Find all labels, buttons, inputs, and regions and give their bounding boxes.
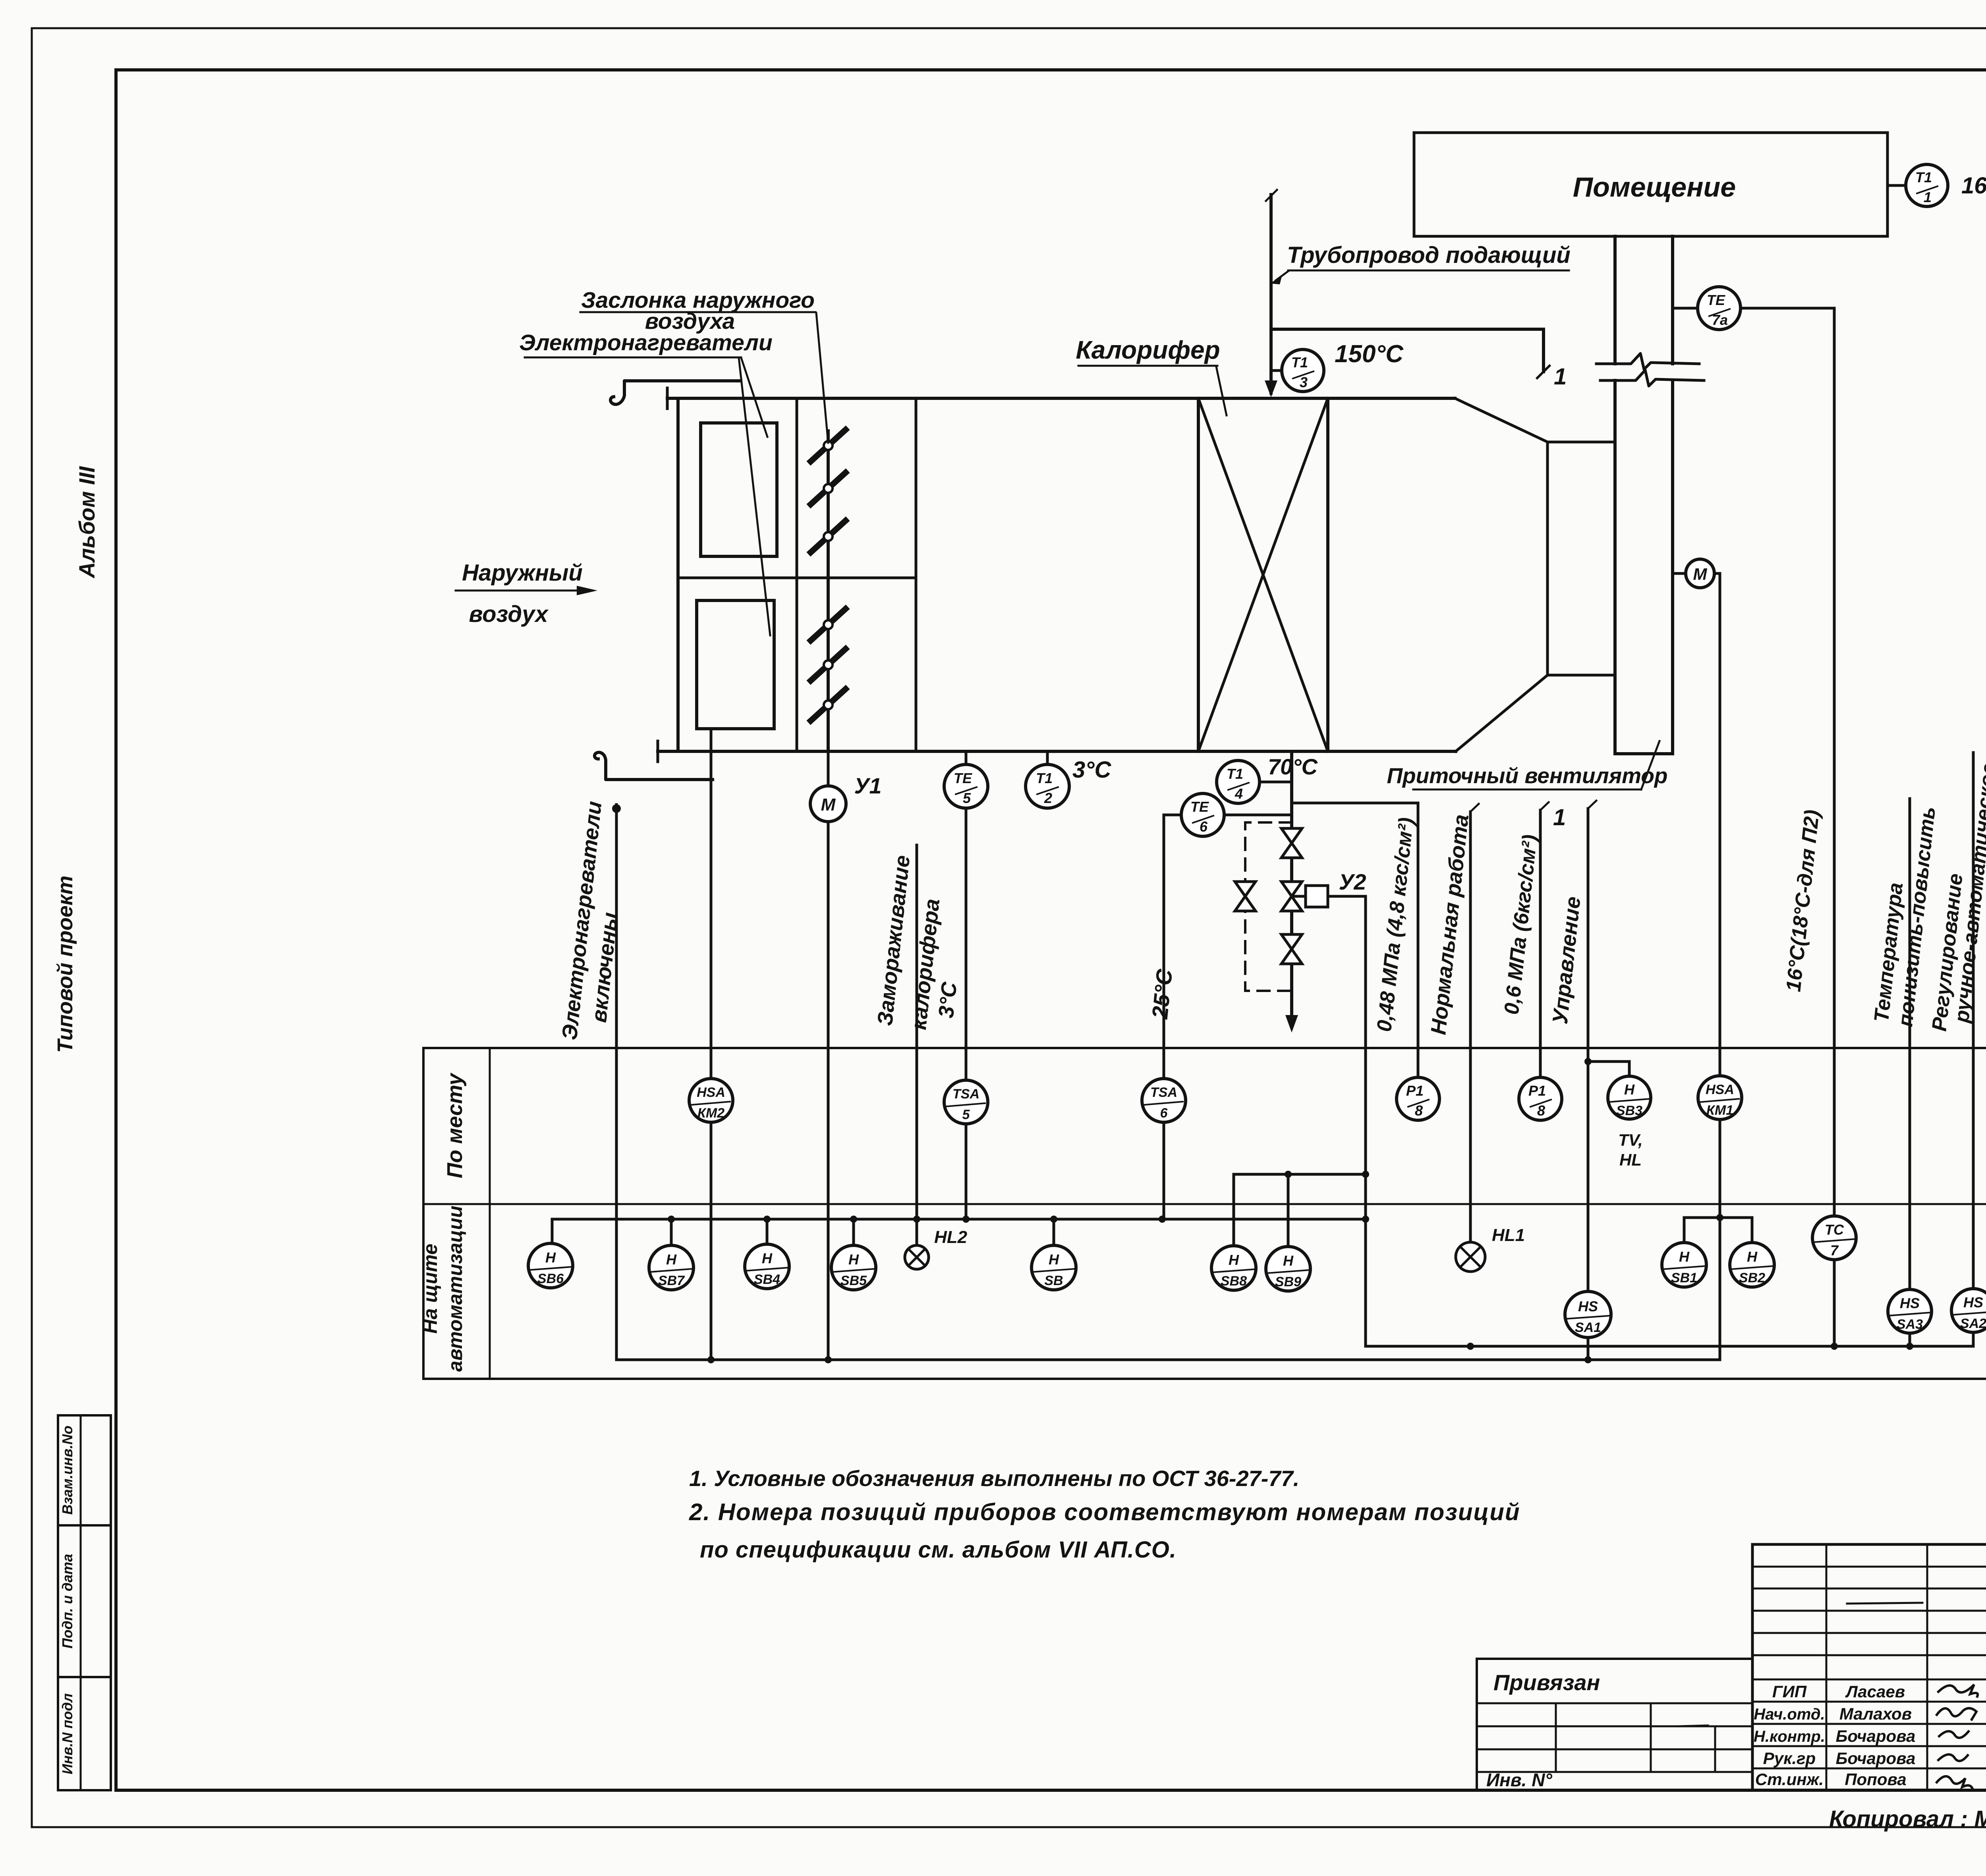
damper blade 1	[811, 430, 846, 461]
svg-text:НL1: НL1	[1492, 1226, 1525, 1245]
button H/SB4	[745, 1244, 789, 1289]
panel row divider	[423, 1203, 1986, 1205]
svg-text:Н: Н	[1747, 1249, 1758, 1265]
button H/SB7	[649, 1245, 694, 1290]
junction TSA/5 bus	[962, 1216, 970, 1223]
svg-text:1. Условные обозначения выполн: 1. Условные обозначения выполнены по ОСТ…	[689, 1466, 1299, 1491]
svg-text:3°С: 3°С	[934, 980, 962, 1019]
drop to SB5	[852, 1219, 855, 1245]
instrument HSA/KM2	[689, 1079, 733, 1122]
svg-text:Копировал : Мосч -: Копировал : Мосч -	[1829, 1806, 1986, 1832]
lamp HL2	[905, 1245, 929, 1269]
bracket SB8 SB9 to У2 wire	[1234, 1174, 1366, 1246]
wire KM1 column to bus B	[1719, 1218, 1721, 1360]
button H/SB2	[1730, 1243, 1774, 1287]
instrument TSA/5	[944, 1080, 988, 1124]
svg-text:SВ9: SВ9	[1275, 1274, 1301, 1289]
wire TSA/5 down to bus	[965, 1124, 968, 1219]
button H/SB6	[528, 1243, 573, 1288]
svg-text:Ласаев: Ласаев	[1845, 1682, 1905, 1701]
svg-text:3°С: 3°С	[1072, 757, 1111, 783]
button H/SB5	[831, 1245, 876, 1290]
svg-text:25°С: 25°С	[1147, 967, 1177, 1021]
svg-text:Альбом III: Альбом III	[74, 466, 99, 579]
instrument T1/4	[1217, 760, 1260, 803]
wire TE/6 left to TSA/6 column	[1164, 814, 1181, 816]
svg-text:Помещение: Помещение	[1573, 172, 1736, 203]
svg-text:Рук.гр: Рук.гр	[1763, 1749, 1816, 1768]
svg-text:SВ1: SВ1	[1671, 1270, 1697, 1285]
damper blade 4	[811, 609, 846, 641]
svg-text:6: 6	[1160, 1106, 1168, 1121]
junction TSA/6 bus	[1159, 1216, 1166, 1223]
instrument T1/2	[1046, 751, 1049, 765]
signatures	[1938, 1685, 1978, 1697]
svg-text:Н: Н	[848, 1251, 859, 1268]
unit partition 1	[796, 398, 798, 751]
svg-text:ТЕ: ТЕ	[1707, 292, 1725, 308]
svg-text:У1: У1	[854, 773, 881, 798]
svg-text:Р1: Р1	[1528, 1083, 1546, 1099]
svg-text:НSА: НSА	[697, 1085, 725, 1100]
svg-text:воздух: воздух	[469, 601, 549, 627]
wire regulation label to HS/SA2	[1972, 753, 1975, 1289]
svg-text:Р1: Р1	[1406, 1083, 1424, 1099]
panel strip box	[423, 1048, 1986, 1379]
svg-text:ТSА: ТSА	[1150, 1085, 1177, 1100]
unit bottom wall	[658, 750, 1456, 753]
bypass valve	[1235, 882, 1256, 896]
wire pipe to P1/8 no.1	[1292, 803, 1418, 1077]
svg-text:Н: Н	[1679, 1249, 1690, 1265]
svg-text:7: 7	[1830, 1242, 1839, 1258]
fan motor M	[1673, 572, 1686, 575]
svg-text:Привязан: Привязан	[1493, 1670, 1600, 1695]
damper axis	[827, 431, 830, 751]
svg-text:SВ7: SВ7	[658, 1273, 685, 1288]
leader to heater E2	[739, 358, 770, 635]
svg-text:Т1: Т1	[1227, 766, 1243, 782]
svg-text:70°С: 70°С	[1268, 754, 1318, 779]
svg-text:Н: Н	[1229, 1252, 1239, 1268]
svg-text:Бочарова: Бочарова	[1836, 1749, 1916, 1768]
wire temperature label to HS/SA3	[1909, 799, 1911, 1289]
svg-text:М: М	[1693, 565, 1708, 583]
svg-text:3: 3	[1300, 374, 1308, 390]
svg-text:Т1: Т1	[1036, 770, 1053, 786]
svg-text:Нач.отд.: Нач.отд.	[1754, 1706, 1825, 1723]
drop to SB4	[766, 1219, 769, 1244]
svg-text:5: 5	[962, 1107, 970, 1122]
svg-text:2. Номера позиций приборов соо: 2. Номера позиций приборов соответствуют…	[689, 1499, 1520, 1525]
wire TE/6 right to pipe	[1224, 814, 1292, 816]
unit partition 2	[915, 398, 918, 751]
binding box Привязан	[1477, 1659, 1752, 1790]
duct left wall	[1613, 236, 1617, 364]
svg-text:Бочарова: Бочарова	[1836, 1727, 1916, 1745]
svg-text:Типовой проект: Типовой проект	[53, 876, 77, 1053]
damper blade 5	[811, 649, 846, 681]
fan inlet cone bottom	[1456, 675, 1547, 751]
svg-text:5: 5	[963, 790, 971, 806]
instrument P1/8 no.2	[1519, 1077, 1562, 1120]
wire Управление column	[1587, 809, 1590, 1291]
valve V3	[1281, 934, 1302, 949]
svg-text:ТС: ТС	[1825, 1222, 1844, 1238]
instrument TE/6	[1181, 793, 1224, 836]
svg-text:ТSА: ТSА	[952, 1087, 979, 1102]
pipe branch to node 1	[1271, 329, 1544, 372]
instrument H/SB3	[1608, 1076, 1651, 1119]
valve V1	[1281, 828, 1302, 843]
heater coil box left	[1197, 398, 1200, 751]
svg-text:Н: Н	[762, 1250, 773, 1266]
svg-text:SА3: SА3	[1897, 1317, 1923, 1332]
drop to SB7	[670, 1219, 673, 1245]
wire freeze-protect label to HL2	[916, 845, 918, 1245]
unit bottom wall end tick	[657, 741, 659, 762]
svg-text:Н: Н	[1283, 1253, 1294, 1269]
svg-text:6: 6	[1200, 818, 1208, 835]
svg-text:150°С: 150°С	[1335, 340, 1404, 368]
svg-text:НSА: НSА	[1706, 1082, 1734, 1097]
fan throat	[1546, 442, 1549, 675]
svg-text:8: 8	[1537, 1102, 1545, 1119]
svg-text:Н: Н	[1049, 1251, 1059, 1268]
svg-text:4: 4	[1234, 786, 1243, 802]
svg-text:Попова: Попова	[1845, 1770, 1906, 1789]
fan inlet cone top	[1455, 398, 1547, 442]
junction У2 bus	[1362, 1216, 1369, 1223]
svg-text:На щите: На щите	[419, 1244, 441, 1334]
wire 0,6МПа to P1/8 no.2	[1539, 810, 1542, 1077]
svg-text:КМ2: КМ2	[697, 1106, 724, 1121]
electric heater E1	[701, 423, 777, 556]
svg-text:SВ5: SВ5	[840, 1273, 867, 1288]
svg-text:Инв. N°: Инв. N°	[1486, 1770, 1552, 1790]
svg-text:Калорифер: Калорифер	[1076, 336, 1220, 364]
svg-text:Ст.инж.: Ст.инж.	[1755, 1770, 1824, 1789]
svg-text:Малахов: Малахов	[1839, 1704, 1912, 1723]
instrument T1/1	[1887, 184, 1906, 187]
node 1 tick	[1537, 366, 1549, 378]
svg-text:автоматизации: автоматизации	[444, 1206, 466, 1372]
svg-text:SВ3: SВ3	[1616, 1103, 1642, 1118]
svg-text:Н: Н	[666, 1251, 677, 1268]
heater coil diagonal 1	[1198, 398, 1328, 751]
fan outlet top	[1547, 441, 1615, 444]
unit left wall	[676, 398, 680, 751]
supply pipe arrow	[1265, 380, 1277, 397]
bypass dashed pipe	[1245, 822, 1292, 991]
svg-text:ГИП: ГИП	[1772, 1682, 1807, 1701]
heater coil box right	[1326, 398, 1329, 751]
room box Помещение	[1414, 133, 1887, 236]
svg-text:По месту: По месту	[443, 1072, 467, 1178]
lamp HL1	[1456, 1242, 1485, 1272]
button H/SB8	[1211, 1246, 1256, 1290]
wire TSA/6 down	[1163, 1122, 1165, 1219]
duct bottom	[1615, 752, 1673, 755]
svg-text:SВ4: SВ4	[754, 1272, 780, 1287]
instrument TE/5	[965, 751, 968, 765]
instrument T1/3	[1282, 349, 1324, 392]
wire TE/5 to TSA/5	[965, 808, 968, 1080]
svg-text:SВ2: SВ2	[1739, 1270, 1765, 1285]
bracket KM1 to SB1 SB2	[1684, 1218, 1752, 1243]
button H/SB1	[1662, 1243, 1706, 1287]
switch HS/SA1	[1565, 1291, 1611, 1338]
drop to HL2	[913, 1216, 920, 1223]
svg-text:КМ1: КМ1	[1706, 1103, 1733, 1118]
svg-text:SВ: SВ	[1044, 1273, 1063, 1288]
duct right wall	[1671, 236, 1674, 364]
svg-text:8: 8	[1415, 1102, 1423, 1119]
instrument TC/7	[1812, 1216, 1856, 1260]
leader to heater E1	[741, 358, 767, 437]
svg-text:Инв.N подл: Инв.N подл	[59, 1693, 75, 1774]
return pipe arrow	[1285, 1015, 1298, 1033]
electric heater E2	[697, 600, 774, 729]
duct break lower	[1600, 370, 1704, 386]
svg-text:НS: НS	[1578, 1298, 1598, 1314]
valve V2 (with actuator У2)	[1281, 882, 1302, 896]
wire M(У1) down	[827, 822, 830, 1360]
switch HS/SA2	[1951, 1289, 1986, 1332]
svg-text:1: 1	[1924, 189, 1932, 205]
svg-text:Взам.инв.No: Взам.инв.No	[59, 1426, 75, 1515]
damper blade 6	[811, 689, 846, 721]
leader to duct	[1641, 741, 1660, 789]
svg-text:Наружный: Наружный	[462, 560, 583, 586]
svg-text:Н.контр.: Н.контр.	[1754, 1728, 1825, 1745]
svg-text:SА2: SА2	[1960, 1316, 1986, 1331]
leader to pipe	[1276, 271, 1288, 280]
margin stamp table	[58, 1415, 111, 1790]
wire to H/SB3	[1588, 1062, 1629, 1076]
leader to damper	[816, 313, 828, 443]
heater coil diagonal 2	[1198, 398, 1328, 751]
unit mid divider	[678, 577, 916, 579]
svg-text:НS: НS	[1963, 1294, 1983, 1310]
wire M to KM1 column	[1719, 573, 1721, 1218]
svg-text:НL: НL	[1619, 1150, 1642, 1169]
drop to SB	[1053, 1219, 1055, 1245]
instrument TE/7a	[1673, 307, 1698, 310]
switch HS/SA3	[1888, 1289, 1932, 1333]
air intake hook top	[610, 381, 741, 404]
svg-text:Н: Н	[545, 1249, 556, 1266]
svg-text:НL2: НL2	[934, 1228, 968, 1247]
lower bus A	[1366, 1345, 1973, 1348]
svg-text:16°С(18°С): 16°С(18°С)	[1961, 173, 1986, 199]
wire У2 actuator down	[1328, 896, 1366, 1346]
instrument TSA/6	[1142, 1079, 1186, 1122]
svg-text:Т1: Т1	[1915, 169, 1932, 185]
svg-text:Приточный вентилятор: Приточный вентилятор	[1387, 763, 1667, 788]
button H/SB9	[1266, 1247, 1310, 1291]
damper actuator M (У1)	[827, 751, 830, 786]
actuator У2	[1292, 895, 1306, 898]
svg-text:2: 2	[1044, 790, 1052, 806]
svg-text:7а: 7а	[1712, 312, 1728, 328]
svg-text:Н: Н	[1624, 1081, 1635, 1098]
left grid rows	[1752, 1566, 1986, 1568]
wire normal-work label to HL1	[1469, 812, 1472, 1242]
svg-text:Т1: Т1	[1291, 354, 1308, 371]
title block outline	[1751, 1544, 1754, 1790]
svg-text:М: М	[821, 795, 836, 814]
fan outlet bottom	[1547, 674, 1615, 677]
damper blade 3	[811, 521, 846, 552]
svg-text:по спецификации см. альбом VII: по спецификации см. альбом VII АП.СО.	[700, 1537, 1177, 1563]
wire heaters-on label line	[615, 805, 618, 1360]
unit top wall	[667, 397, 1455, 400]
svg-text:ТV,: ТV,	[1618, 1131, 1642, 1149]
panel caption divider	[489, 1048, 491, 1379]
wire TE/7a to TC7 column	[1741, 307, 1834, 310]
damper blade 2	[811, 473, 846, 504]
duct break upper	[1596, 353, 1699, 369]
svg-text:Трубопровод подающий: Трубопровод подающий	[1287, 242, 1571, 268]
svg-text:SВ6: SВ6	[537, 1271, 564, 1286]
heater return pipe	[1290, 751, 1293, 1017]
lower bus B	[616, 1359, 1720, 1361]
svg-text:ТЕ: ТЕ	[1190, 799, 1209, 815]
svg-text:ТЕ: ТЕ	[954, 770, 972, 786]
svg-text:SВ8: SВ8	[1221, 1274, 1247, 1289]
unit top wall end tick	[666, 388, 669, 409]
svg-text:SА1: SА1	[1575, 1320, 1601, 1335]
supply pipe	[1269, 195, 1273, 393]
instrument P1/8 no.1	[1397, 1077, 1439, 1120]
air intake hook bottom	[595, 752, 713, 780]
left signature grid columns	[1826, 1544, 1828, 1790]
leader to coil	[1216, 367, 1227, 415]
wire heater to KM2	[710, 729, 713, 1079]
svg-text:Подп. и дата: Подп. и дата	[59, 1554, 75, 1648]
svg-text:У2: У2	[1339, 869, 1366, 894]
instrument HSA/KM1	[1698, 1076, 1742, 1119]
main panel bus	[552, 1219, 1366, 1243]
button H/SB	[1032, 1245, 1076, 1290]
svg-text:1: 1	[1553, 805, 1566, 830]
svg-text:НS: НS	[1900, 1295, 1920, 1311]
svg-text:1: 1	[1554, 364, 1567, 390]
svg-text:Электронагреватели: Электронагреватели	[519, 330, 773, 355]
